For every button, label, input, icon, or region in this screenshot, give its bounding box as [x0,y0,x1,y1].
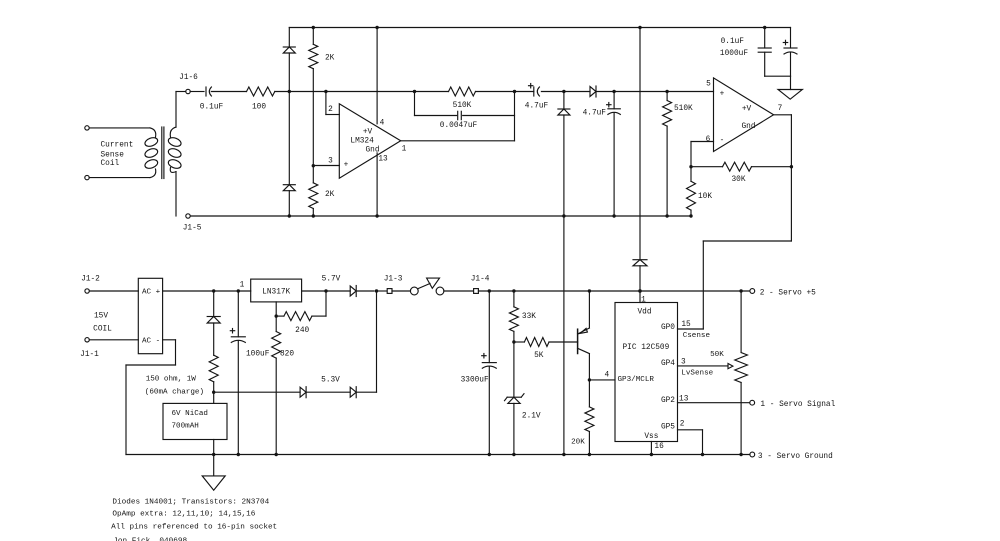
svg-text:0.0047uF: 0.0047uF [440,122,478,130]
svg-text:100uF: 100uF [246,351,270,359]
svg-text:2: 2 [680,421,685,429]
svg-text:6: 6 [706,136,711,144]
svg-text:LN317K: LN317K [262,288,290,296]
svg-text:GP4: GP4 [661,360,675,368]
svg-text:240: 240 [295,327,309,335]
svg-text:Current: Current [101,142,134,150]
svg-text:13: 13 [378,156,388,164]
svg-text:GP2: GP2 [661,397,675,405]
svg-text:5: 5 [706,80,711,88]
svg-text:510K: 510K [674,105,693,113]
svg-text:20K: 20K [571,438,585,446]
svg-text:3: 3 [328,158,333,166]
svg-text:5.7V: 5.7V [322,275,341,283]
svg-text:100: 100 [252,103,266,111]
svg-text:Csense: Csense [683,332,711,340]
svg-text:150 ohm, 1W: 150 ohm, 1W [146,376,197,384]
svg-text:Gnd: Gnd [365,147,379,155]
svg-text:820: 820 [280,351,294,359]
svg-text:J1-2: J1-2 [81,275,100,283]
svg-text:+: + [344,161,349,169]
svg-text:5.3V: 5.3V [321,376,340,384]
svg-text:13: 13 [679,395,689,403]
svg-text:3: 3 [681,359,686,367]
svg-text:0.1uF: 0.1uF [200,103,224,111]
svg-text:5K: 5K [534,352,544,360]
svg-text:Coil: Coil [101,160,120,168]
svg-text:1: 1 [402,146,407,154]
svg-text:1 - Servo Signal: 1 - Servo Signal [760,401,835,409]
svg-text:4: 4 [380,120,385,128]
svg-text:GP3/MCLR: GP3/MCLR [618,376,655,384]
svg-text:LM324: LM324 [350,137,374,145]
svg-text:510K: 510K [453,102,472,110]
svg-text:4: 4 [605,371,610,379]
svg-text:30K: 30K [731,176,745,184]
svg-text:Gnd: Gnd [741,123,755,131]
svg-text:GP0: GP0 [661,324,675,332]
svg-text:6V NiCad: 6V NiCad [172,410,208,418]
svg-text:1: 1 [641,296,646,304]
svg-text:Vdd: Vdd [637,309,651,317]
svg-text:COIL: COIL [93,326,112,334]
svg-text:15: 15 [681,321,691,329]
svg-text:+V: +V [742,105,752,113]
svg-text:1000uF: 1000uF [720,50,748,58]
svg-text:AC +: AC + [142,289,161,297]
svg-text:All pins referenced to 16-pin: All pins referenced to 16-pin socket [111,524,277,532]
svg-text:10K: 10K [698,193,712,201]
svg-text:Jon Fick, 040698: Jon Fick, 040698 [113,538,187,541]
svg-text:2 - Servo +5: 2 - Servo +5 [760,290,816,298]
svg-text:1: 1 [240,281,245,289]
svg-text:50K: 50K [710,351,724,359]
svg-text:2K: 2K [325,54,335,62]
svg-text:2K: 2K [325,191,335,199]
svg-text:3300uF: 3300uF [461,376,489,384]
svg-text:7: 7 [778,105,783,113]
svg-text:J1-1: J1-1 [80,351,99,359]
svg-text:AC -: AC - [142,338,160,346]
svg-text:33K: 33K [522,313,536,321]
svg-text:OpAmp extra: 12,11,10; 14,15,: OpAmp extra: 12,11,10; 14,15,16 [112,511,255,519]
svg-text:+: + [720,90,725,98]
svg-text:J1-5: J1-5 [183,225,202,233]
svg-text:J1-4: J1-4 [471,275,490,283]
svg-text:2: 2 [328,106,333,114]
svg-text:0.1uF: 0.1uF [721,38,745,46]
svg-text:GP5: GP5 [661,424,675,432]
svg-text:PIC 12C509: PIC 12C509 [623,344,670,352]
svg-text:2.1V: 2.1V [522,413,541,421]
svg-text:Sense: Sense [101,151,125,159]
svg-text:(60mA charge): (60mA charge) [145,388,204,396]
svg-text:-: - [720,137,725,145]
svg-text:J1-3: J1-3 [384,275,403,283]
svg-text:3 - Servo Ground: 3 - Servo Ground [758,453,833,461]
svg-text:Vss: Vss [644,433,658,441]
svg-text:700mAH: 700mAH [172,422,199,430]
svg-text:15V: 15V [94,312,108,320]
svg-text:16: 16 [654,443,664,451]
svg-text:Diodes 1N4001; Transistors: 2: Diodes 1N4001; Transistors: 2N3704 [112,498,269,506]
svg-text:LvSense: LvSense [681,370,713,378]
svg-text:+V: +V [363,129,373,137]
svg-text:4.7uF: 4.7uF [525,102,549,110]
svg-text:4.7uF: 4.7uF [583,109,607,117]
svg-text:J1-6: J1-6 [179,74,198,82]
